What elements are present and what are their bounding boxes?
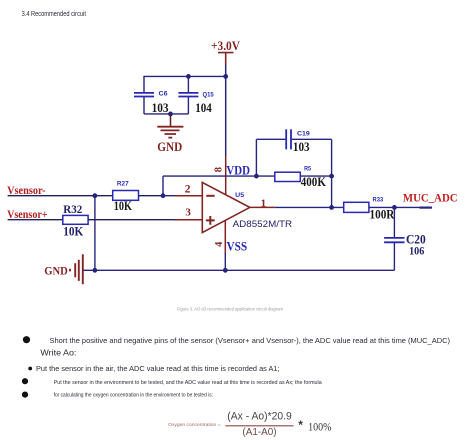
svg-text:Oxygen concentration =: Oxygen concentration = <box>168 422 221 428</box>
node junction Vsensor- / ground branch <box>93 193 98 198</box>
svg-text:(Ax - Ao)*20.9: (Ax - Ao)*20.9 <box>227 411 291 423</box>
pin 4 of op-amp (VSS) <box>224 220 226 253</box>
svg-text:103: 103 <box>152 101 169 115</box>
svg-text:Figure 3. AO-03 recommended ap: Figure 3. AO-03 recommended application … <box>177 307 283 313</box>
op-amp U5 <box>202 182 250 232</box>
wire feedback vertical drop <box>162 176 164 196</box>
node junction at +3.0V rail <box>223 74 228 79</box>
wire R27 to pin2 node <box>139 195 164 197</box>
wire output run <box>275 206 344 208</box>
wire Q15 top lead <box>187 76 189 92</box>
wire feedback top run <box>163 175 332 177</box>
svg-text:R33: R33 <box>373 197 384 204</box>
svg-text:2: 2 <box>185 183 191 195</box>
wire Vsensor- down to ground rail <box>94 196 96 271</box>
svg-text:R5: R5 <box>304 166 311 173</box>
resistor R27 <box>113 191 139 201</box>
node junction feedback right top <box>329 174 334 179</box>
ground symbol (top, earth) <box>157 114 183 138</box>
svg-text:C6: C6 <box>159 91 169 98</box>
wire R33 to MUC_ADC <box>369 206 432 208</box>
svg-text:(A1-A0): (A1-A0) <box>242 427 276 438</box>
wire feedback right vertical <box>331 139 333 207</box>
wire cap-bank top <box>144 75 226 77</box>
node junction ground rail left <box>93 268 98 273</box>
svg-text:Write Ao:: Write Ao: <box>40 347 76 357</box>
pin 8 of op-amp (VDD) <box>225 156 227 195</box>
svg-text:106: 106 <box>409 243 424 257</box>
node junction VSS on rail <box>223 268 228 273</box>
capacitor C6 <box>134 93 154 114</box>
pin 1 of op-amp (output) <box>250 206 275 208</box>
wire +3.0V vertical <box>225 65 227 157</box>
capacitor C19 <box>256 129 331 149</box>
svg-text:Q15: Q15 <box>203 92 215 99</box>
svg-text:*: * <box>298 418 303 432</box>
wire C19 left vertical <box>255 139 257 176</box>
bullet 1 <box>23 336 30 343</box>
svg-text:MUC_ADC: MUC_ADC <box>403 191 458 205</box>
svg-text:R32: R32 <box>63 202 82 216</box>
svg-text:10K: 10K <box>63 223 84 238</box>
svg-text:400K: 400K <box>301 174 327 189</box>
svg-text:GND: GND <box>44 263 68 277</box>
bullet 2 <box>28 367 32 371</box>
formula fraction line <box>225 425 293 427</box>
node junction C20 tap <box>392 205 397 210</box>
svg-text:10K: 10K <box>114 198 133 213</box>
svg-text:103: 103 <box>293 140 310 154</box>
power +3.0V bar symbol <box>218 53 234 65</box>
svg-text:Put the sensor in the environm: Put the sensor in the environment to be … <box>54 380 322 386</box>
node junction feedback/C19 left <box>254 174 259 179</box>
svg-text:R27: R27 <box>117 181 129 188</box>
resistor R32 <box>63 215 88 224</box>
wire Vsensor- to R27 <box>8 195 113 197</box>
svg-text:8: 8 <box>214 167 225 172</box>
bullet 4 <box>22 392 28 398</box>
svg-text:104: 104 <box>195 101 212 115</box>
wire VSS to ground rail <box>224 253 226 270</box>
node junction Q15 top <box>186 74 191 79</box>
wire ground rail <box>95 269 395 271</box>
svg-text:C19: C19 <box>297 130 310 137</box>
svg-text:1: 1 <box>261 197 267 209</box>
bullet 3 <box>22 378 28 384</box>
wire ground to rail <box>84 269 95 271</box>
svg-text:AD8552M/TR: AD8552M/TR <box>233 219 293 230</box>
svg-text:GND: GND <box>157 139 182 154</box>
ground symbol (left, rotated earth) <box>70 254 83 284</box>
pin 2 of op-amp <box>175 195 202 197</box>
pin 3 of op-amp <box>175 219 202 221</box>
resistor R33 <box>344 202 369 212</box>
svg-text:100R: 100R <box>370 207 395 222</box>
svg-text:+3.0V: +3.0V <box>211 38 241 53</box>
svg-text:4: 4 <box>214 241 225 247</box>
svg-text:for calculating the oxygen con: for calculating the oxygen concentration… <box>54 392 213 398</box>
node junction output/feedback <box>329 205 334 210</box>
wire R32 to pin3 <box>88 219 175 221</box>
wire node to pin2 stub <box>163 195 175 197</box>
svg-text:100%: 100% <box>308 420 331 434</box>
svg-text:VSS: VSS <box>227 240 248 254</box>
wire C20 top lead <box>393 207 395 237</box>
wire C6 top lead <box>143 76 145 93</box>
svg-text:Put the sensor in the air, the: Put the sensor in the air, the ADC value… <box>36 364 280 373</box>
node junction cap-bank bottom <box>168 112 173 117</box>
svg-text:U5: U5 <box>235 192 245 199</box>
wire cap-bank bottom <box>144 113 188 115</box>
wire Vsensor+ to R32 <box>8 219 63 221</box>
capacitor C20 <box>384 238 404 270</box>
svg-text:Short the positive and negativ: Short the positive and negative pins of … <box>50 336 451 345</box>
svg-text:3: 3 <box>185 207 191 219</box>
svg-text:3.4 Recommended circuit: 3.4 Recommended circuit <box>22 11 86 18</box>
node junction pin2/feedback <box>161 193 166 198</box>
capacitor Q15 <box>178 93 198 114</box>
resistor R5 <box>275 172 301 181</box>
